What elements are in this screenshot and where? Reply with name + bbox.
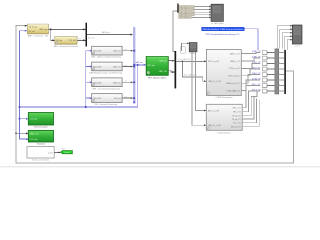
svg-text:TG_pb_TX: TG_pb_TX — [232, 119, 242, 121]
bus creator BC2 — [175, 51, 177, 88]
svg-text:uC TX: uC TX — [295, 45, 301, 47]
junction dots on blue net — [19, 106, 21, 108]
svg-text:bus_can: bus_can — [88, 37, 95, 39]
uC gateway block (dark) — [211, 4, 224, 25]
subsystem G1 (green) BKT Adapter — [146, 57, 168, 80]
wire: annotation link connector — [245, 29, 258, 50]
wires: CORE outputs to converter column — [241, 53, 259, 91]
bus creator BC3 — [284, 50, 286, 94]
wires: tan rows to uC block — [191, 7, 211, 18]
svg-text:CTRL_an_TX: CTRL_an_TX — [229, 68, 241, 70]
svg-text:LWR_anz: LWR_anz — [113, 82, 121, 84]
mux bar (grey) — [275, 49, 279, 94]
big subsystem CORE — [206, 49, 241, 99]
canvas shade below edge — [0, 167, 320, 168]
wire: small bar at tan column to BC2 top — [173, 11, 178, 51]
svg-text:BKT1_as_RX: BKT1_as_RX — [208, 110, 220, 112]
arrow into green adapter — [144, 64, 146, 66]
svg-text:RX_anf: RX_anf — [29, 31, 35, 33]
wire: Szenen output to goto tag — [54, 151, 60, 155]
svg-text:HE_r_TX: HE_r_TX — [233, 112, 241, 114]
wires between mux bar and BC3 — [279, 53, 284, 92]
wire: A output to bus creator BC1 with branch to B — [49, 29, 86, 40]
svg-text:[CTRL_TX]: [CTRL_TX] — [252, 62, 261, 64]
tan From-tag rows — [179, 5, 196, 19]
subsystem Fahrfunktionen — [206, 104, 242, 134]
wire: BC2 output to CORE in1, with branch to in2 — [176, 61, 206, 81]
subsystem B (yellow) BAP-Gateway — [54, 36, 79, 48]
junction on black feedback line — [15, 132, 17, 134]
svg-text:IPDU_seq_TX: IPDU_seq_TX — [228, 76, 240, 78]
small block outline near BC2 — [180, 47, 185, 54]
wires: rising into top-right uC block inputs — [277, 26, 292, 50]
faint canvas edge bottom — [0, 165, 320, 168]
source block Szenen zur Detektion — [27, 147, 54, 162]
wire: BC1 output bus to lavender line — [87, 33, 132, 37]
white subsystem W3 LWR — [90, 78, 133, 90]
dark uC block top right — [292, 25, 302, 47]
svg-text:BKT_bus: BKT_bus — [148, 65, 155, 67]
wire: B output to BC1 — [77, 38, 85, 42]
display G3 (green) Testdaten — [26, 130, 54, 145]
white subsystem W2 BAP — [89, 62, 133, 74]
wire: D1 left to BC2 top — [181, 43, 188, 51]
white subsystem W4 Gateway — [90, 94, 133, 106]
annotation link box — [202, 27, 245, 31]
display G2 (green) Einheitssignale — [26, 113, 54, 129]
svg-text:BKT1_as_RX: BKT1_as_RX — [208, 61, 220, 63]
wire: blue bus distribution net — [20, 31, 146, 139]
wire: D1 down to Fahrfunktionen in2 — [192, 52, 206, 125]
wires: Fahrfunktionen outputs wrap up right side — [242, 86, 260, 127]
goto tag (green) — [60, 151, 72, 154]
svg-text:GW_anz: GW_anz — [114, 98, 121, 100]
wire: D1 right-down to Fahrfunktionen in1 — [196, 52, 207, 111]
input arrows of A — [25, 25, 27, 27]
svg-text:[HE_L_TX]: [HE_L_TX] — [252, 84, 261, 86]
svg-text:TX_V_onu: TX_V_onu — [29, 26, 37, 28]
thick lavender bus line — [129, 28, 139, 102]
mini bus bar at tan column — [177, 4, 178, 13]
white subsystem W1 CAN-Objekt — [90, 46, 133, 58]
wires: G1 outputs to bus creator BC2 — [168, 60, 174, 72]
converter column: 8 small blocks with blue labels — [252, 50, 275, 93]
subsystem A (yellow) BAP-Composer — [27, 24, 48, 37]
svg-text:HE_L_TX: HE_L_TX — [233, 108, 242, 110]
svg-text:TRX_002: TRX_002 — [68, 40, 76, 42]
bus creator BC1 — [86, 23, 88, 47]
svg-text:[HE_R_TX]: [HE_R_TX] — [252, 90, 261, 92]
wire: long feedback loop from bus creator BC3 output around right/bottom/left — [16, 26, 294, 163]
svg-text:TG_ab_TX: TG_ab_TX — [232, 116, 242, 118]
small dark block D1 (rate transition) — [189, 43, 197, 56]
svg-text:[IPDU_TX]: [IPDU_TX] — [252, 68, 261, 70]
